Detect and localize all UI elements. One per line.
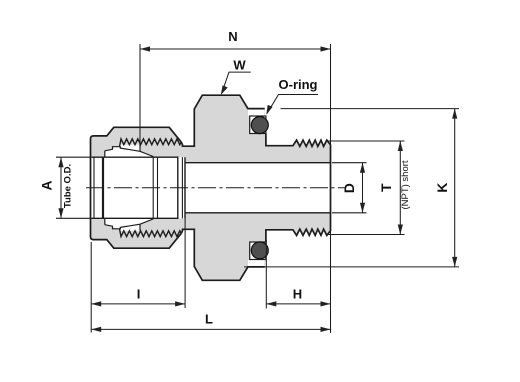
svg-text:A: A [40, 180, 55, 190]
svg-text:(NPT) short: (NPT) short [400, 160, 411, 209]
svg-text:T: T [379, 183, 394, 192]
svg-text:H: H [293, 287, 302, 302]
svg-text:L: L [205, 312, 213, 327]
svg-text:I: I [137, 287, 141, 302]
svg-text:W: W [233, 58, 246, 73]
svg-text:K: K [435, 183, 450, 193]
svg-text:O-ring: O-ring [279, 77, 318, 92]
svg-text:N: N [228, 29, 237, 44]
svg-text:D: D [342, 183, 357, 193]
svg-text:Tube O.D.: Tube O.D. [63, 164, 74, 208]
